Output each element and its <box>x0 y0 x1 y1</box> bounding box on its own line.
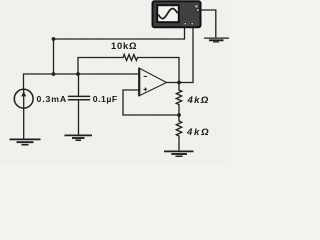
wire: R2 to node B <box>178 105 180 122</box>
capacitor C1 bottom lead <box>78 100 80 135</box>
current source I1 arrow shaft <box>23 90 25 109</box>
scope knob dot <box>195 5 197 7</box>
op-amp plus mark <box>144 88 148 92</box>
wire: op-amp output to scope ch2 <box>167 26 194 83</box>
ground: current source <box>10 139 41 145</box>
wire: output node down to R2 <box>178 83 180 91</box>
wire: node A to feedback resistor run (y=57.5) <box>78 58 123 75</box>
wire: node A up to scope ch1 (y=39 run) <box>54 26 185 74</box>
scope ch1 jack <box>183 22 187 26</box>
resistor R1 10k zigzag <box>123 55 137 61</box>
node dot: ch1 tap <box>52 37 56 41</box>
op-amp U1 <box>139 68 166 96</box>
wire: feedback loop from node B to op-amp inverting input <box>123 90 179 115</box>
ground: divider <box>164 151 194 156</box>
capacitor C1 plates <box>69 95 90 97</box>
capacitor C1 top lead <box>78 74 80 96</box>
scope output terminal <box>196 9 199 12</box>
scope ch2 jack <box>190 22 194 26</box>
node dot: divider mid node B <box>177 113 181 117</box>
oscilloscope <box>153 1 201 27</box>
wire: input bus node A (y=74) <box>24 74 140 90</box>
node dot: output <box>177 81 181 85</box>
node dot: bus/cap/R1 <box>76 72 80 76</box>
op-amp minus mark <box>144 75 147 77</box>
resistor R3 4k zigzag <box>176 121 181 136</box>
scope trace <box>158 9 177 19</box>
current source I1 arrowhead <box>21 91 26 96</box>
wire: R3 to ground <box>178 136 180 151</box>
current source I1 bottom lead <box>23 108 25 138</box>
ground: capacitor <box>65 135 93 140</box>
wire: R1 right to output node <box>138 58 180 83</box>
current source I1 circle <box>14 89 33 108</box>
resistor R2 4k zigzag <box>176 90 181 105</box>
ground: scope <box>204 38 229 42</box>
node dot: bus/ch1 <box>52 72 56 76</box>
wire: scope right terminal to ground <box>201 10 216 37</box>
